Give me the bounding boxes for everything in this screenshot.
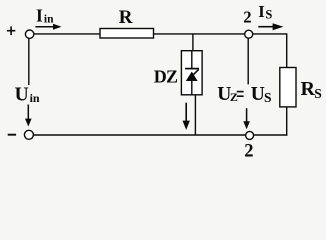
node 2 top circle xyxy=(245,30,253,38)
svg-text:I: I xyxy=(258,2,264,21)
arrow Is xyxy=(258,23,283,30)
zener diode DZ box xyxy=(181,51,202,95)
wire right branch lower xyxy=(286,107,288,136)
svg-text:in: in xyxy=(44,13,54,25)
wire left branch xyxy=(28,38,30,85)
svg-text:in: in xyxy=(30,91,40,105)
label Uin xyxy=(15,84,40,105)
svg-text:DZ: DZ xyxy=(154,67,178,87)
svg-text:S: S xyxy=(314,86,322,101)
wire DZ branch top xyxy=(192,34,194,51)
minus terminal label - xyxy=(8,134,16,136)
svg-text:I: I xyxy=(36,5,43,25)
wire top-left segment xyxy=(34,33,101,35)
terminal node top-left xyxy=(25,30,33,38)
svg-text:U: U xyxy=(251,84,265,105)
svg-text:U: U xyxy=(15,84,29,105)
svg-text:S: S xyxy=(265,8,272,22)
label Is xyxy=(258,2,272,21)
label Uz = Us xyxy=(217,84,271,105)
wire bottom segment xyxy=(34,134,246,136)
arrow Iin xyxy=(35,24,61,30)
arrow Uin xyxy=(25,105,32,127)
wire below DZ box xyxy=(194,95,196,135)
wire bottom-right segment xyxy=(254,134,288,136)
resistor Rs xyxy=(280,68,296,107)
arrow Uz xyxy=(243,108,250,129)
arrow current below DZ xyxy=(183,103,190,130)
zener diode DZ symbol xyxy=(185,51,199,95)
resistor R xyxy=(100,29,154,39)
svg-text:2: 2 xyxy=(244,141,253,157)
svg-text:R: R xyxy=(119,7,133,28)
node 2 bottom circle xyxy=(246,131,254,139)
svg-text:S: S xyxy=(264,90,272,105)
svg-text:2: 2 xyxy=(243,8,251,27)
node 2-2 measurement branch xyxy=(247,38,249,84)
wire top-right segment xyxy=(253,34,287,68)
label Rs xyxy=(301,78,322,101)
label Iin xyxy=(36,5,54,25)
svg-text:R: R xyxy=(301,78,316,100)
wire top-middle segment xyxy=(154,33,245,35)
svg-text:Z: Z xyxy=(230,90,238,104)
plus terminal label + xyxy=(7,26,15,35)
terminal node bottom-left xyxy=(24,130,33,139)
